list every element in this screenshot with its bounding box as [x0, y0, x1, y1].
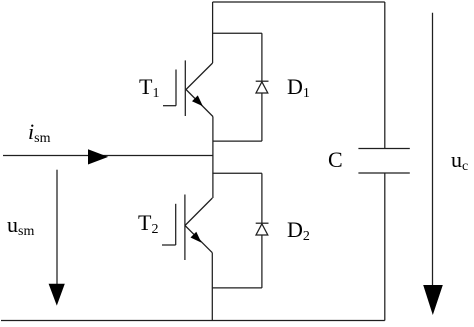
diode D2: [256, 173, 269, 288]
arrow u_c polarity: [423, 285, 443, 315]
wire D2 top branch: [212, 172, 262, 174]
arrow u_sm polarity: [49, 284, 65, 306]
transistor T1 (IGBT): [163, 60, 213, 116]
wire u_c reference line: [432, 13, 434, 286]
wire bus lower vertical: [211, 253, 213, 321]
label T1: [139, 76, 159, 98]
diode D1: [256, 33, 269, 141]
label u_c: [451, 149, 468, 171]
label u_sm: [7, 214, 34, 236]
wire capacitor top lead: [384, 2, 386, 149]
wire top rail: [213, 1, 385, 3]
wire bus mid vertical (node between T1 and T2): [212, 117, 214, 199]
label i_sm: [28, 121, 50, 143]
wire D1 bottom branch: [213, 140, 262, 142]
wire bus upper vertical: [212, 2, 214, 63]
wire capacitor bottom lead: [384, 173, 386, 321]
wire D2 bottom branch: [212, 287, 262, 289]
label C: [328, 149, 343, 171]
wire bottom rail: [1, 320, 385, 322]
capacitor C: [358, 149, 409, 174]
label T2: [138, 212, 158, 234]
wire input lead i_sm: [3, 155, 213, 157]
transistor T2 (IGBT): [162, 195, 212, 261]
label D2: [287, 219, 310, 241]
arrow i_sm current direction: [88, 149, 108, 164]
wire u_sm reference line: [56, 170, 58, 284]
wire D1 top branch: [213, 32, 262, 34]
label D1: [287, 76, 310, 98]
